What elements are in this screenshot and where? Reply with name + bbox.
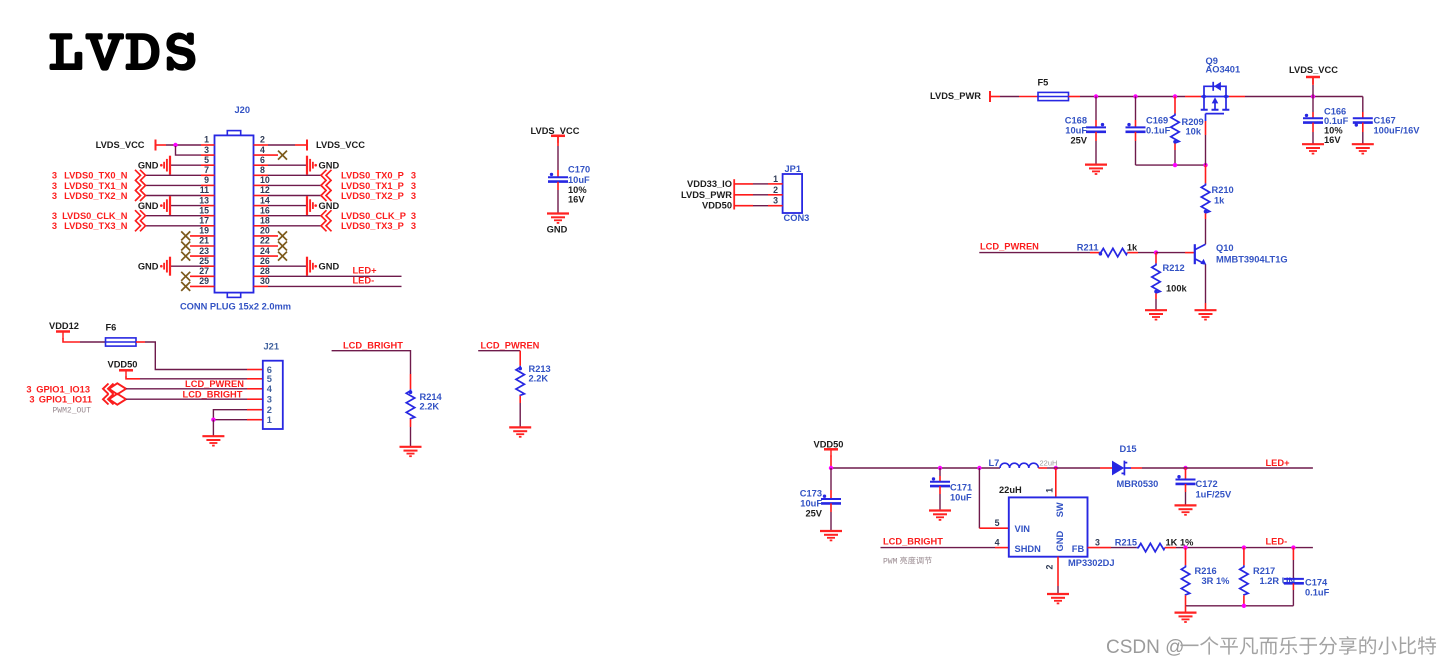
label PWM brightness note [883, 557, 932, 567]
no-connect X at J20 pin 4 [254, 145, 288, 160]
svg-text:100uF/16V: 100uF/16V [1374, 125, 1421, 135]
junction dots on power rail [1094, 94, 1315, 98]
svg-text:9: 9 [204, 175, 209, 185]
J20 pin 8 wire, net LVDS0_TX0_P (off-page) [254, 165, 417, 181]
capacitor C172 with wires [1176, 468, 1232, 505]
connector J20 body [215, 131, 254, 298]
inductor L7 [989, 458, 1058, 495]
svg-text:LED+: LED+ [353, 265, 378, 275]
svg-text:LVDS0_TX0_P: LVDS0_TX0_P [341, 171, 404, 181]
svg-text:3: 3 [411, 221, 416, 231]
svg-text:LCD_BRIGHT: LCD_BRIGHT [883, 537, 943, 547]
svg-text:GPIO1_IO11: GPIO1_IO11 [39, 395, 92, 405]
svg-text:LVDS_VCC: LVDS_VCC [531, 126, 580, 136]
resistor R213 [516, 364, 551, 427]
svg-text:29: 29 [199, 276, 209, 286]
svg-text:GND: GND [319, 201, 340, 211]
capacitor C169 with wires [1126, 97, 1171, 166]
svg-text:VIN: VIN [1015, 524, 1031, 534]
net label LCD_BRIGHT with wire [332, 341, 411, 390]
svg-text:10uF: 10uF [1065, 126, 1087, 136]
transistor Q10 MMBT3904LT1G npn [1195, 244, 1207, 265]
svg-text:16: 16 [260, 205, 270, 215]
title LVDS [49, 33, 195, 71]
wire SW pin from rail to chip [1055, 468, 1057, 497]
svg-text:VDD33_IO: VDD33_IO [687, 179, 732, 189]
svg-text:10: 10 [260, 175, 270, 185]
ground at J20 pin 13 [138, 195, 215, 215]
J20 pin 28 wire, net LED+ [254, 265, 402, 276]
svg-text:4: 4 [995, 538, 1000, 548]
ground at J20 pin 14 [254, 195, 340, 215]
resistor R209 [1171, 97, 1204, 166]
svg-text:3: 3 [52, 211, 57, 221]
JP1 input terminal bar [733, 179, 735, 209]
svg-text:LED-: LED- [353, 276, 375, 286]
svg-text:GND: GND [319, 160, 340, 170]
svg-text:LED+: LED+ [1266, 458, 1291, 468]
capacitor C168 with wires [1065, 97, 1106, 165]
svg-text:LVDS0_CLK_N: LVDS0_CLK_N [62, 211, 128, 221]
svg-text:LVDS0_TX1_P: LVDS0_TX1_P [341, 181, 404, 191]
svg-text:4: 4 [260, 145, 265, 155]
svg-text:C174: C174 [1305, 578, 1328, 588]
svg-text:10k: 10k [1186, 127, 1202, 137]
svg-text:3: 3 [411, 211, 416, 221]
svg-text:D15: D15 [1120, 444, 1137, 454]
no-connect X at J20 pin 29 [181, 276, 214, 291]
J20 pin 17 wire, net LVDS0_TX3_N (off-page) [52, 216, 215, 232]
svg-text:SHDN: SHDN [1015, 544, 1042, 554]
bottom rail wire R216-R217-C174 [1186, 604, 1294, 608]
off-page connector GPIO1_IO13 [26, 383, 126, 394]
svg-text:26: 26 [260, 256, 270, 266]
no-connect X at J20 pin 24 [254, 246, 288, 261]
svg-text:1k: 1k [1127, 243, 1138, 253]
wire VIN branch from rail [979, 468, 1008, 528]
wire LVDS_VCC to C170 [557, 137, 559, 177]
diode D15 MBR0530 schottky [1112, 444, 1158, 489]
J20 pin 30 wire, net LED- [254, 276, 402, 287]
main power rail wire from F5 to Q9 [1069, 96, 1202, 98]
svg-text:R216: R216 [1195, 566, 1217, 576]
wire Q9 gate to lower rail [1205, 121, 1207, 165]
svg-text:3: 3 [411, 171, 416, 181]
svg-text:CON3: CON3 [784, 213, 810, 223]
ground at J20 pin 26 [254, 256, 340, 276]
svg-text:J20: J20 [235, 105, 251, 115]
svg-text:AO3401: AO3401 [1206, 65, 1241, 75]
ground below C173 [820, 531, 842, 540]
rail wire VDD50 to L7 [831, 467, 1000, 469]
ground below J21 [202, 436, 224, 445]
resistor R211 [1077, 243, 1156, 257]
svg-text:LVDS_VCC: LVDS_VCC [316, 140, 365, 150]
MP3302DJ pin numbers [995, 488, 1100, 570]
svg-text:22uH: 22uH [1040, 459, 1058, 468]
svg-text:3: 3 [52, 171, 57, 181]
svg-text:13: 13 [199, 195, 209, 205]
svg-text:VDD50: VDD50 [108, 359, 138, 369]
J20 pin 10 wire, net LVDS0_TX1_P (off-page) [254, 175, 417, 191]
svg-text:1: 1 [1045, 488, 1055, 493]
svg-text:PWM: PWM [883, 558, 898, 567]
svg-text:2: 2 [1045, 565, 1055, 570]
no-connect X at J20 pin 23 [181, 246, 214, 261]
J20 pin 7 wire, net LVDS0_TX0_N (off-page) [52, 165, 215, 181]
connector J21 pin numbers [267, 365, 273, 425]
svg-text:3: 3 [411, 181, 416, 191]
resistor R214 [406, 389, 442, 446]
svg-text:3: 3 [267, 395, 272, 405]
svg-text:25V: 25V [805, 509, 822, 519]
svg-text:C171: C171 [950, 483, 972, 493]
connector JP1 body [783, 174, 803, 213]
svg-text:GND: GND [547, 224, 568, 234]
svg-text:1: 1 [773, 174, 778, 184]
wire J21 pin 1 to ground junction [211, 418, 263, 436]
svg-text:R212: R212 [1163, 263, 1185, 273]
svg-text:2.2K: 2.2K [420, 402, 440, 412]
svg-text:5: 5 [267, 374, 272, 384]
wire GPIO1_IO11 / LCD_BRIGHT to J21 pin 3 [126, 390, 263, 400]
svg-text:LVDS0_TX1_N: LVDS0_TX1_N [64, 181, 128, 191]
svg-text:2: 2 [773, 185, 778, 195]
no-connect X at J20 pin 27 [181, 266, 214, 281]
ic MP3302DJ body [1009, 497, 1088, 556]
svg-text:R214: R214 [420, 392, 443, 402]
svg-text:R213: R213 [529, 364, 551, 374]
ground below C168 [1085, 165, 1107, 174]
svg-text:F6: F6 [106, 323, 117, 333]
capacitor C174 with wires [1284, 548, 1330, 606]
power symbol LVDS_VCC top right [1289, 65, 1338, 97]
svg-text:18: 18 [260, 216, 270, 226]
wire VDD50 to J21 pin 5 [126, 377, 263, 379]
svg-text:15: 15 [199, 205, 209, 215]
svg-text:C172: C172 [1196, 479, 1218, 489]
svg-text:MP3302DJ: MP3302DJ [1068, 558, 1115, 568]
no-connect X at J20 pin 21 [181, 236, 214, 251]
power symbol LVDS_VCC above C170 [531, 126, 580, 143]
svg-text:27: 27 [199, 266, 209, 276]
resistor R216 [1181, 548, 1230, 606]
J20 pin 12 wire, net LVDS0_TX2_P (off-page) [254, 185, 417, 201]
svg-text:2: 2 [267, 405, 272, 415]
svg-text:LVDS0_TX2_N: LVDS0_TX2_N [64, 191, 128, 201]
svg-text:Q10: Q10 [1216, 243, 1234, 253]
ground at J20 pin 6 [254, 155, 340, 175]
svg-text:LVDS0_TX3_P: LVDS0_TX3_P [341, 221, 404, 231]
net label LCD_BRIGHT bottom with wire to SHDN [881, 537, 1009, 548]
ground below R212 [1145, 310, 1167, 319]
svg-text:23: 23 [199, 246, 209, 256]
power symbol VDD50 [108, 359, 138, 377]
JP1 pin 2 wire, net LVDS_PWR [681, 185, 783, 200]
wire F6 to J21 pin 6 [136, 342, 263, 370]
svg-text:GND: GND [1055, 531, 1065, 552]
svg-text:10%: 10% [1324, 125, 1343, 135]
resistor R217 [1240, 548, 1296, 606]
svg-text:30: 30 [260, 276, 270, 286]
wire SW node to D15 [1056, 467, 1112, 469]
svg-text:6: 6 [260, 155, 265, 165]
off-page connector GPIO1_IO11 [29, 394, 126, 405]
J20 pin 16 wire, net LVDS0_CLK_P (off-page) [254, 205, 417, 221]
svg-text:VDD50: VDD50 [814, 439, 844, 449]
wire Q10 emitter to ground [1205, 265, 1207, 310]
no-connect X at J20 pin 22 [254, 236, 288, 251]
wire junction to Q10 base [1156, 252, 1195, 254]
svg-text:MMBT3904LT1G: MMBT3904LT1G [1216, 254, 1288, 264]
resistor R212 [1152, 253, 1188, 310]
svg-text:VDD50: VDD50 [702, 201, 732, 211]
svg-text:LCD_PWREN: LCD_PWREN [481, 341, 540, 351]
svg-text:21: 21 [199, 236, 209, 246]
svg-text:L7: L7 [989, 458, 1000, 468]
svg-text:3: 3 [52, 191, 57, 201]
svg-text:7: 7 [204, 165, 209, 175]
svg-text:1K 1%: 1K 1% [1166, 537, 1195, 547]
svg-text:C166: C166 [1324, 106, 1346, 116]
svg-text:25V: 25V [1070, 136, 1087, 146]
svg-text:CONN PLUG 15x2 2.0mm: CONN PLUG 15x2 2.0mm [180, 302, 291, 312]
transistor Q9 AO3401 p-mosfet [1201, 82, 1230, 121]
ground below R213 [509, 427, 531, 436]
Q9 labels [1206, 56, 1241, 75]
wire L7 to SW node [1038, 467, 1055, 469]
svg-text:LVDS0_TX0_N: LVDS0_TX0_N [64, 171, 128, 181]
svg-text:LCD_BRIGHT: LCD_BRIGHT [343, 341, 403, 351]
ground below C170 [547, 214, 569, 235]
svg-text:3: 3 [26, 384, 31, 394]
wire GND pin 2 to ground [1057, 557, 1059, 594]
ground below C172 [1175, 505, 1197, 514]
ground at J20 pin 5 [138, 155, 215, 175]
svg-text:LVDS_PWR: LVDS_PWR [681, 190, 732, 200]
J20 pin 18 wire, net LVDS0_TX3_P (off-page) [254, 216, 417, 232]
JP1 pin 1 wire, net VDD33_IO [687, 174, 783, 189]
svg-text:VDD12: VDD12 [49, 321, 79, 331]
svg-text:3: 3 [29, 395, 34, 405]
wire J21 pin 2 to ground junction [213, 410, 262, 420]
capacitor C170 [548, 164, 590, 204]
svg-text:14: 14 [260, 195, 270, 205]
net label LCD_PWREN with wire [478, 341, 539, 366]
wire Q9 to LVDS_VCC node and C167 [1229, 96, 1363, 98]
svg-text:16V: 16V [568, 194, 585, 204]
svg-text:2.2K: 2.2K [529, 374, 549, 384]
svg-text:FB: FB [1072, 544, 1085, 554]
svg-text:GND: GND [138, 160, 159, 170]
svg-text:J21: J21 [264, 342, 280, 352]
svg-text:24: 24 [260, 246, 270, 256]
svg-text:11: 11 [200, 185, 209, 195]
svg-text:3: 3 [52, 181, 57, 191]
svg-text:25: 25 [199, 256, 209, 266]
ground below R214 [400, 447, 422, 456]
svg-text:LED-: LED- [1266, 537, 1288, 547]
svg-text:10uF: 10uF [800, 499, 822, 509]
wire FB pin to R215 [1088, 547, 1137, 549]
Q10 labels [1216, 243, 1288, 265]
J20 pin 15 wire, net LVDS0_CLK_N (off-page) [52, 205, 215, 221]
svg-text:MBR0530: MBR0530 [1117, 479, 1159, 489]
svg-text:LVDS_PWR: LVDS_PWR [930, 91, 981, 101]
svg-text:2: 2 [260, 135, 265, 145]
svg-text:1k: 1k [1214, 195, 1225, 205]
svg-text:22: 22 [260, 236, 270, 246]
J20 pin 2 wire, net LVDS_VCC [254, 135, 366, 151]
wire lower rail C169-R209-gate [1136, 163, 1208, 167]
ground below C167 [1352, 144, 1374, 153]
svg-text:C167: C167 [1374, 116, 1396, 126]
resistor R210 [1201, 165, 1233, 244]
svg-text:22uH: 22uH [999, 485, 1022, 495]
svg-text:10uF: 10uF [950, 492, 972, 502]
svg-text:16V: 16V [1324, 135, 1341, 145]
svg-text:C169: C169 [1146, 116, 1168, 126]
svg-text:LVDS0_TX2_P: LVDS0_TX2_P [341, 191, 404, 201]
watermark CSDN [1106, 636, 1436, 658]
svg-text:28: 28 [260, 266, 270, 276]
svg-text:GND: GND [319, 261, 340, 271]
ground below C166 [1302, 144, 1324, 153]
resistor R215 [1115, 537, 1194, 551]
svg-text:3: 3 [1095, 538, 1100, 548]
svg-text:0.1uF: 0.1uF [1305, 587, 1330, 597]
connector J21 body [263, 361, 283, 429]
ground below MP3302DJ [1047, 594, 1069, 603]
svg-text:20: 20 [260, 226, 270, 236]
power symbol VDD50 bottom [814, 439, 844, 456]
svg-text:C168: C168 [1065, 116, 1087, 126]
no-connect X at J20 pin 20 [254, 226, 288, 241]
svg-text:LCD_BRIGHT: LCD_BRIGHT [183, 390, 243, 400]
svg-text:3: 3 [773, 196, 778, 206]
J20 pin 11 wire, net LVDS0_TX2_N (off-page) [52, 185, 215, 201]
svg-text:LCD_PWREN: LCD_PWREN [185, 379, 244, 389]
power symbol VDD12 [49, 321, 79, 339]
capacitor C173 with wires [800, 468, 841, 531]
svg-text:3R 1%: 3R 1% [1202, 576, 1231, 586]
wire R215 to LED- with junctions [1183, 545, 1313, 549]
wire C170 to ground [557, 182, 559, 213]
J20 pin 3 wire from LVDS_VCC junction [176, 145, 215, 155]
no-connect X at J20 pin 19 [181, 226, 214, 241]
capacitor C171 with wires [930, 468, 972, 510]
JP1 pin 3 wire, net VDD50 [702, 196, 783, 211]
svg-text:R217: R217 [1253, 566, 1275, 576]
svg-text:C173: C173 [800, 489, 822, 499]
svg-text:8: 8 [260, 165, 265, 175]
svg-text:3: 3 [204, 145, 209, 155]
svg-text:5: 5 [204, 155, 209, 165]
svg-text:CSDN @: CSDN @ [1106, 637, 1184, 658]
junction dots on LED+ rail [829, 466, 1188, 470]
svg-text:GPIO1_IO13: GPIO1_IO13 [36, 384, 90, 394]
svg-text:1uF/25V: 1uF/25V [1196, 490, 1232, 500]
svg-text:R210: R210 [1212, 185, 1234, 195]
J20 pin 9 wire, net LVDS0_TX1_N (off-page) [52, 175, 215, 191]
svg-text:LCD_PWREN: LCD_PWREN [980, 241, 1039, 251]
svg-text:SW: SW [1055, 502, 1065, 517]
svg-text:PWM2_OUT: PWM2_OUT [53, 406, 92, 415]
svg-text:10%: 10% [568, 185, 587, 195]
net label LVDS_PWR and input terminal [930, 91, 990, 102]
capacitor C166 with wires [1303, 97, 1349, 145]
svg-text:17: 17 [199, 216, 209, 226]
wire GPIO1_IO13 / LCD_PWREN to J21 pin 4 [126, 379, 263, 389]
svg-text:100k: 100k [1166, 283, 1188, 293]
fuse F5 [1038, 77, 1069, 100]
wire D15 to C172 and LED+ [1131, 467, 1313, 469]
junction dot at R212 top [1154, 250, 1158, 254]
svg-text:0.1uF: 0.1uF [1146, 126, 1171, 136]
svg-text:4: 4 [267, 384, 273, 394]
wire VDD12 to fuse F6 [63, 338, 106, 342]
net label LCD_PWREN with wire to R211 [979, 241, 1099, 252]
svg-text:R215: R215 [1115, 537, 1137, 547]
svg-text:LVDS0_TX3_N: LVDS0_TX3_N [64, 221, 128, 231]
svg-text:JP1: JP1 [785, 164, 802, 174]
ground below C171 [929, 511, 951, 520]
svg-text:19: 19 [199, 226, 209, 236]
svg-text:1: 1 [267, 415, 272, 425]
svg-text:12: 12 [260, 185, 270, 195]
ground below R216 [1175, 613, 1197, 622]
wire R216 to ground [1185, 606, 1187, 612]
svg-text:GND: GND [138, 261, 159, 271]
svg-text:3: 3 [52, 221, 57, 231]
ground below Q10 [1195, 310, 1217, 319]
svg-text:LVDS0_CLK_P: LVDS0_CLK_P [341, 211, 406, 221]
svg-text:GND: GND [138, 201, 159, 211]
svg-text:LVDS_VCC: LVDS_VCC [1289, 65, 1338, 75]
svg-text:3: 3 [411, 191, 416, 201]
svg-text:R211: R211 [1077, 243, 1099, 253]
fuse F6 [106, 323, 137, 347]
svg-text:F5: F5 [1038, 77, 1049, 87]
svg-text:C170: C170 [568, 164, 590, 174]
ground at J20 pin 25 [138, 256, 215, 276]
J20 pin 1 wire, net LVDS_VCC [96, 135, 215, 151]
capacitor C167 with wires [1353, 97, 1420, 144]
svg-text:5: 5 [995, 518, 1000, 528]
MP3302DJ pin names and labels [1015, 502, 1115, 568]
svg-text:R209: R209 [1182, 117, 1204, 127]
wire LVDS_PWR to fuse F5 [990, 96, 1038, 98]
svg-text:10uF: 10uF [568, 175, 590, 185]
svg-text:LVDS_VCC: LVDS_VCC [96, 140, 145, 150]
wire VDD50 to rail [830, 456, 832, 469]
svg-text:1: 1 [204, 135, 209, 145]
